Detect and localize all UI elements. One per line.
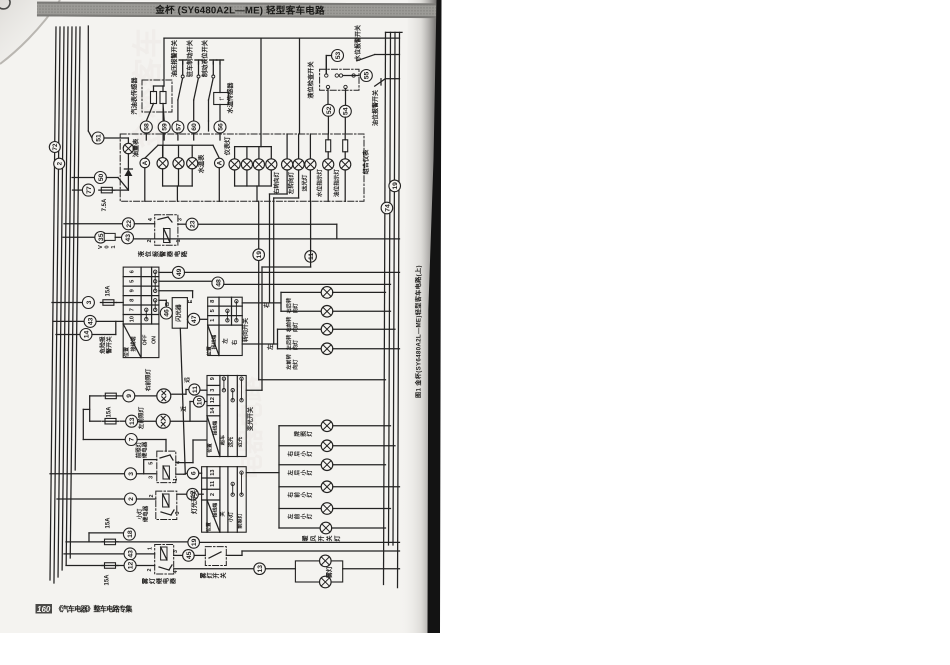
svg-text:11: 11 <box>192 386 199 393</box>
svg-text:前照灯: 前照灯 <box>135 441 143 458</box>
svg-text:灯: 灯 <box>306 431 314 437</box>
svg-text:向灯: 向灯 <box>291 302 299 313</box>
svg-text:灯: 灯 <box>306 451 314 457</box>
svg-text:风: 风 <box>309 535 317 541</box>
svg-text:10: 10 <box>130 316 136 322</box>
svg-text:继电器: 继电器 <box>142 505 150 522</box>
svg-text:近光: 近光 <box>236 436 244 447</box>
svg-text:灯: 灯 <box>306 470 314 476</box>
svg-text:灯: 灯 <box>148 577 156 584</box>
svg-text:水位指示灯: 水位指示灯 <box>315 169 323 198</box>
svg-text:小: 小 <box>299 470 307 476</box>
svg-text:位: 位 <box>145 250 153 257</box>
svg-text:远: 远 <box>183 377 191 383</box>
svg-text:77: 77 <box>86 186 93 194</box>
svg-text:位置: 位置 <box>205 522 212 532</box>
svg-text:1: 1 <box>148 547 154 550</box>
svg-text:11: 11 <box>308 253 315 260</box>
svg-text:油压报警开关: 油压报警开关 <box>170 39 178 77</box>
svg-text:小: 小 <box>299 513 307 519</box>
svg-text:制动液位开关: 制动液位开关 <box>201 39 209 77</box>
svg-text:15A: 15A <box>104 574 110 586</box>
svg-text:前: 前 <box>293 492 301 498</box>
svg-text:关: 关 <box>218 511 226 517</box>
svg-text:左: 左 <box>221 338 229 345</box>
svg-text:接线端: 接线端 <box>212 421 219 436</box>
svg-text:10: 10 <box>196 398 203 406</box>
svg-text:照: 照 <box>299 431 307 437</box>
svg-text:左前转: 左前转 <box>285 353 293 369</box>
svg-text:2: 2 <box>149 495 155 498</box>
svg-text:右转向灯: 右转向灯 <box>273 171 281 194</box>
svg-text:5: 5 <box>149 462 155 465</box>
svg-text:小灯: 小灯 <box>227 511 235 522</box>
svg-text:仪表灯: 仪表灯 <box>224 136 232 156</box>
svg-text:闪光器: 闪光器 <box>175 304 183 322</box>
svg-text:开: 开 <box>317 535 325 541</box>
svg-text:油量表: 油量表 <box>132 138 140 157</box>
svg-text:关: 关 <box>219 572 227 578</box>
svg-text:49: 49 <box>176 268 183 276</box>
svg-text:160: 160 <box>37 605 51 614</box>
svg-text:13: 13 <box>257 565 264 573</box>
svg-text:右后转: 右后转 <box>285 297 293 313</box>
svg-text:左前照灯: 左前照灯 <box>137 406 145 429</box>
svg-text:3: 3 <box>128 472 135 476</box>
svg-text:58: 58 <box>144 123 151 131</box>
svg-text:油位报警开关: 油位报警开关 <box>372 90 380 126</box>
svg-text:继电器: 继电器 <box>141 441 149 458</box>
svg-text:牌: 牌 <box>293 431 301 437</box>
svg-text:超车: 超车 <box>218 435 226 446</box>
svg-text:0: 0 <box>105 245 111 248</box>
svg-text:14: 14 <box>210 407 216 414</box>
svg-text:3: 3 <box>86 300 93 304</box>
svg-text:近: 近 <box>180 406 188 412</box>
svg-text:远光灯: 远光灯 <box>300 174 308 191</box>
svg-text:E: E <box>188 299 194 303</box>
svg-text:1: 1 <box>173 478 179 481</box>
svg-text:警开关: 警开关 <box>105 336 113 355</box>
svg-text:液位检查开关: 液位检查开关 <box>307 61 315 99</box>
svg-text:小: 小 <box>299 451 307 457</box>
svg-text:后: 后 <box>293 451 301 457</box>
svg-text:14: 14 <box>83 331 90 339</box>
svg-text:位置: 位置 <box>206 443 213 453</box>
svg-text:灯光开关: 灯光开关 <box>191 490 199 514</box>
svg-text:继: 继 <box>155 577 163 584</box>
svg-text:2: 2 <box>147 239 153 242</box>
svg-text:53: 53 <box>335 52 342 60</box>
svg-text:19: 19 <box>191 538 198 546</box>
svg-text:60: 60 <box>191 123 198 131</box>
svg-text:52: 52 <box>326 106 333 114</box>
svg-text:报: 报 <box>152 250 160 257</box>
svg-text:15A: 15A <box>106 517 112 529</box>
svg-text:3: 3 <box>149 476 155 479</box>
svg-text:位置: 位置 <box>123 347 130 357</box>
svg-text:7.5A: 7.5A <box>102 198 108 211</box>
svg-text:V: V <box>98 245 104 249</box>
svg-text:54: 54 <box>343 107 350 115</box>
svg-text:关: 关 <box>325 535 333 541</box>
svg-text:6: 6 <box>190 471 197 475</box>
svg-text:器: 器 <box>166 250 174 258</box>
svg-text:左: 左 <box>267 344 275 351</box>
svg-text:1: 1 <box>176 239 182 242</box>
svg-text:灯: 灯 <box>306 513 314 519</box>
svg-text:警: 警 <box>159 250 167 258</box>
svg-text:暖: 暖 <box>301 535 309 542</box>
svg-text:向灯: 向灯 <box>291 359 299 370</box>
svg-text:右: 右 <box>230 339 238 345</box>
svg-text:组合仪表: 组合仪表 <box>362 149 370 175</box>
svg-text:OFF: OFF <box>142 334 148 345</box>
svg-text:15A: 15A <box>107 406 113 418</box>
svg-text:器: 器 <box>169 577 177 585</box>
svg-text:13: 13 <box>129 417 136 425</box>
svg-text:左: 左 <box>287 470 295 476</box>
svg-text:12: 12 <box>210 397 216 403</box>
svg-text:7: 7 <box>130 308 136 311</box>
svg-text:22: 22 <box>126 220 133 228</box>
svg-text:2: 2 <box>147 569 153 572</box>
svg-text:A: A <box>217 160 224 165</box>
svg-text:右前转: 右前转 <box>285 316 293 332</box>
svg-text:驻车制动开关: 驻车制动开关 <box>186 39 194 77</box>
svg-text:位置: 位置 <box>206 346 213 356</box>
svg-text:左: 左 <box>287 513 295 519</box>
svg-text:9: 9 <box>126 394 133 398</box>
svg-text:灯: 灯 <box>306 492 314 498</box>
svg-text:2: 2 <box>128 497 135 501</box>
svg-text:57: 57 <box>175 123 182 131</box>
svg-text:金杯 (SY6480A2L—ME) 轻型客车电路: 金杯 (SY6480A2L—ME) 轻型客车电路 <box>154 4 325 17</box>
svg-text:74: 74 <box>384 204 391 212</box>
svg-text:危险报: 危险报 <box>99 336 107 355</box>
svg-text:右: 右 <box>287 451 295 457</box>
svg-text:雾灯: 雾灯 <box>326 566 334 579</box>
svg-text:3: 3 <box>178 218 184 221</box>
svg-text:后: 后 <box>293 470 301 476</box>
svg-text:前: 前 <box>293 513 301 519</box>
svg-text:56: 56 <box>217 123 224 131</box>
svg-text:43: 43 <box>125 234 132 242</box>
svg-text:液: 液 <box>137 250 145 257</box>
svg-text:电: 电 <box>162 577 170 584</box>
svg-text:电: 电 <box>173 250 181 257</box>
svg-text:灯: 灯 <box>206 572 214 578</box>
svg-text:47: 47 <box>191 315 198 323</box>
svg-text:46: 46 <box>164 309 171 317</box>
svg-text:55: 55 <box>364 72 371 80</box>
svg-text:ON: ON <box>151 336 157 344</box>
svg-text:小灯: 小灯 <box>136 508 144 519</box>
svg-text:水温表: 水温表 <box>198 154 206 173</box>
svg-text:向灯: 向灯 <box>291 321 299 332</box>
svg-text:向灯: 向灯 <box>291 339 299 350</box>
svg-text:水位报警开关: 水位报警开关 <box>354 25 362 61</box>
svg-text:变光开关: 变光开关 <box>246 407 254 431</box>
svg-text:43: 43 <box>128 550 135 558</box>
svg-text:51: 51 <box>95 134 102 142</box>
svg-text:右: 右 <box>287 492 295 498</box>
svg-text:t°: t° <box>220 96 226 101</box>
svg-text:11: 11 <box>210 481 216 487</box>
svg-text:2: 2 <box>56 161 63 165</box>
svg-text:灯: 灯 <box>333 535 341 541</box>
svg-text:43: 43 <box>88 317 95 325</box>
svg-text:小: 小 <box>299 492 307 498</box>
svg-text:15A: 15A <box>106 285 112 297</box>
svg-text:A: A <box>142 160 149 165</box>
svg-text:右前照灯: 右前照灯 <box>144 368 152 391</box>
svg-text:接线端: 接线端 <box>130 336 137 352</box>
svg-text:9: 9 <box>210 377 216 380</box>
svg-text:19: 19 <box>392 182 399 190</box>
svg-text:23: 23 <box>189 220 196 228</box>
svg-text:7: 7 <box>129 437 136 441</box>
svg-text:3: 3 <box>210 389 216 392</box>
svg-text:左转向灯: 左转向灯 <box>287 171 295 194</box>
svg-text:油位指示灯: 油位指示灯 <box>332 169 340 197</box>
svg-text:4: 4 <box>173 571 179 574</box>
svg-text:开: 开 <box>213 572 221 578</box>
svg-text:接线端: 接线端 <box>212 503 219 518</box>
svg-text:水温传感器: 水温传感器 <box>227 82 235 114</box>
svg-text:18: 18 <box>127 530 134 538</box>
svg-text:48: 48 <box>215 279 222 287</box>
svg-text:左后转: 左后转 <box>285 334 293 350</box>
svg-text:汽油表传感器: 汽油表传感器 <box>131 77 139 115</box>
svg-text:72: 72 <box>52 143 59 150</box>
svg-text:2: 2 <box>210 493 216 496</box>
svg-text:3: 3 <box>175 512 181 515</box>
svg-text:《汽车电器》整车电路专集: 《汽车电器》整车电路专集 <box>55 605 133 614</box>
svg-text:前照灯: 前照灯 <box>236 512 244 528</box>
svg-text:45: 45 <box>186 551 193 559</box>
svg-text:19: 19 <box>256 251 263 259</box>
svg-text:路: 路 <box>181 250 189 257</box>
svg-text:远光: 远光 <box>227 436 235 447</box>
svg-text:3: 3 <box>173 550 179 553</box>
svg-text:雾: 雾 <box>199 572 207 580</box>
svg-text:50: 50 <box>98 174 105 182</box>
svg-text:59: 59 <box>162 123 169 131</box>
svg-text:图1 金杯(SY6480A2L—ME)轻型客车电路(上): 图1 金杯(SY6480A2L—ME)轻型客车电路(上) <box>415 265 423 398</box>
svg-text:12: 12 <box>128 562 135 570</box>
svg-text:雾: 雾 <box>142 577 150 585</box>
svg-text:13: 13 <box>210 469 216 475</box>
svg-text:转向开关: 转向开关 <box>242 318 250 342</box>
